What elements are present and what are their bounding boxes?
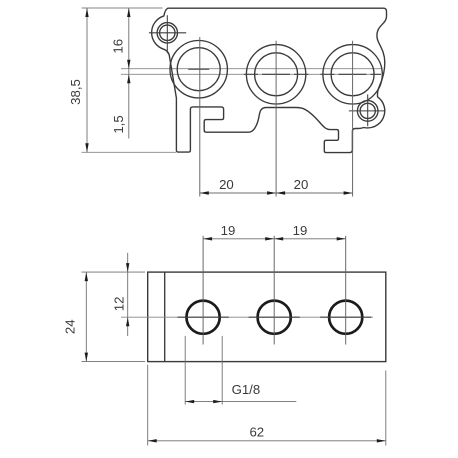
svg-text:1,5: 1,5	[111, 115, 126, 133]
profile outline of manifold section	[152, 8, 387, 152]
dimension 16	[128, 8, 130, 139]
svg-text:20: 20	[294, 177, 309, 192]
svg-text:24: 24	[63, 319, 78, 334]
node: hole 1 vertical centerline / extension	[202, 236, 204, 345]
wire: axis line upper (16 reference)	[121, 68, 383, 70]
dimension 38,5	[86, 8, 88, 152]
svg-text:19: 19	[293, 223, 308, 238]
svg-text:19: 19	[221, 223, 236, 238]
node: hole 3 vertical centerline / extension	[345, 236, 347, 345]
dimension 1,5 arrow	[127, 74, 130, 83]
svg-text:16: 16	[111, 39, 126, 54]
node: centerline/extension port 1 vertical	[199, 37, 201, 197]
crosshair port 2	[244, 73, 309, 75]
svg-text:20: 20	[219, 177, 234, 192]
dimension 19 / 19	[203, 238, 346, 240]
dimension 24	[82, 272, 146, 362]
crosshair hole 1	[178, 316, 229, 318]
svg-text:62: 62	[249, 425, 264, 440]
crosshair screw hole top-left	[149, 15, 186, 53]
wire: axis line lower (port centerline, 1,5 below)	[121, 73, 381, 75]
wire: horizontal centerline bottom view	[121, 316, 373, 318]
port circle 1 outer	[170, 40, 227, 97]
svg-text:G1/8: G1/8	[232, 382, 261, 397]
node: hole 2 vertical centerline / extension	[273, 236, 275, 345]
crosshair hole 2	[249, 316, 300, 318]
wire: extension line bottom of profile (38,5)	[82, 151, 177, 153]
dimension 12	[127, 253, 129, 336]
dimension 20 / 20	[200, 192, 353, 194]
crosshair port 3	[320, 73, 381, 75]
end plate edge line	[164, 272, 166, 362]
screw hole top-left inner	[160, 25, 175, 40]
port circle 2 inner	[255, 53, 298, 96]
svg-text:12: 12	[112, 297, 127, 312]
port circle 2 outer	[246, 45, 305, 104]
port circle 3 outer	[323, 45, 382, 104]
hole 3 ring	[329, 301, 362, 334]
hole 1 ring	[187, 301, 220, 334]
node: centerline/extension port 2 vertical	[275, 41, 277, 197]
crosshair hole 3	[320, 316, 371, 318]
body rectangle	[148, 272, 386, 362]
port circle 1 inner	[177, 48, 220, 91]
screw hole top-left outer	[157, 23, 177, 43]
svg-text:38,5: 38,5	[68, 79, 83, 105]
dimension 62	[148, 365, 386, 446]
wire: extension line top edge (38,5 / 16)	[82, 7, 163, 9]
port circle 3 inner	[331, 53, 374, 96]
hole 2 ring	[258, 301, 291, 334]
crosshair screw hole bottom-right	[349, 94, 385, 126]
screw hole bottom-right inner	[360, 103, 375, 118]
screw hole bottom-right outer	[357, 101, 378, 122]
dimension G1/8	[185, 336, 296, 405]
node: centerline/extension port 3 vertical	[352, 41, 354, 197]
crosshair port 1	[188, 68, 209, 70]
